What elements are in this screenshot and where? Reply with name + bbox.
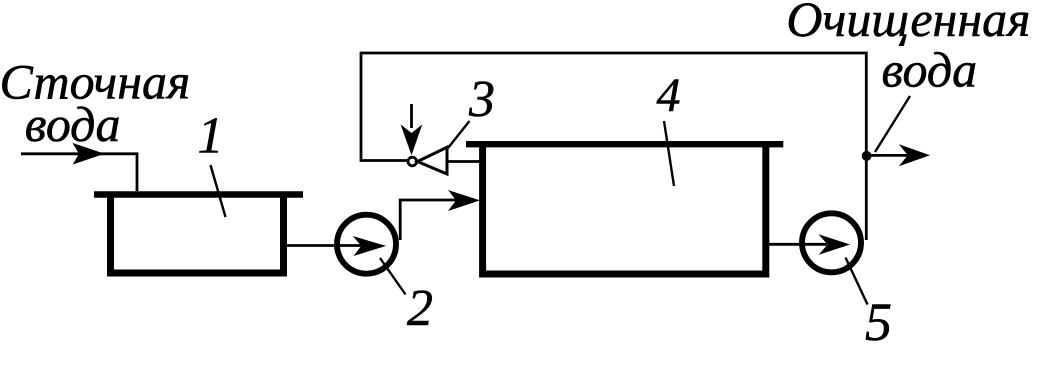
wire: tank 1 to pump 2 bbox=[287, 244, 361, 247]
leader line for label 3 bbox=[448, 121, 470, 148]
tank T1 lid bbox=[94, 191, 303, 198]
arrowhead on inlet line bbox=[73, 143, 105, 165]
tank T4 lid bbox=[466, 141, 783, 147]
svg-text:4: 4 bbox=[657, 69, 681, 122]
pump P2 arrow bbox=[353, 236, 386, 256]
leader line for label 4 bbox=[664, 121, 674, 186]
svg-text:вода: вода bbox=[25, 96, 121, 152]
svg-text:2: 2 bbox=[407, 280, 433, 337]
tank T4 body (open box) bbox=[483, 147, 766, 274]
pump P2 circle bbox=[337, 215, 396, 274]
valve V3 triangle bbox=[418, 147, 448, 174]
tank T1 body (open box) bbox=[111, 197, 284, 273]
wire: down arrow stem into valve 3 bbox=[410, 104, 413, 128]
arrowhead pointing down into valve 3 bbox=[401, 124, 423, 155]
svg-text:1: 1 bbox=[198, 108, 224, 165]
leader line for label 2 bbox=[380, 258, 406, 295]
arrowhead on outlet bbox=[899, 144, 930, 166]
junction node on outlet line bbox=[862, 151, 872, 161]
wire: pump 2 outlet riser to tank 4 bbox=[400, 200, 470, 240]
leader line for outlet label text bbox=[875, 96, 910, 152]
svg-text:Очищенная: Очищенная bbox=[786, 0, 1030, 47]
wire: recycle line from valve 3 up and across to outlet node bbox=[361, 53, 866, 240]
svg-text:5: 5 bbox=[865, 292, 892, 352]
wire: outlet arrow line bbox=[871, 154, 908, 157]
svg-text:вода: вода bbox=[882, 42, 978, 98]
leader line for label 1 bbox=[211, 165, 226, 217]
wire: inlet line to tank 1 bbox=[21, 154, 137, 191]
leader line for label 5 bbox=[846, 258, 868, 305]
svg-text:3: 3 bbox=[468, 71, 495, 128]
pump P5 circle bbox=[802, 213, 861, 272]
arrowhead into tank 4 (from pump 2) bbox=[448, 190, 480, 211]
valve V3 node circle bbox=[408, 157, 417, 166]
wire: tank 4 to pump 5 bbox=[769, 243, 827, 246]
wire: valve 3 to tank 4 bbox=[447, 160, 482, 163]
pump P5 arrow bbox=[819, 234, 851, 255]
